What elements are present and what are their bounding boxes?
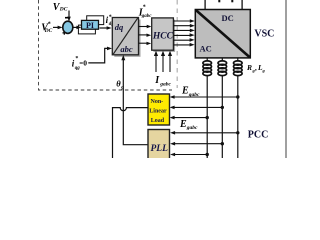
gate pulse wire 4 bbox=[174, 34, 191, 36]
svg-text:DC: DC bbox=[222, 13, 234, 23]
svg-text:*: * bbox=[48, 22, 51, 28]
bus phase c bbox=[237, 75, 239, 158]
wire VSC to coil c bbox=[237, 58, 239, 61]
label V*_DC bbox=[41, 22, 52, 35]
junction dot bus b PLL bbox=[221, 142, 224, 145]
svg-text:abc: abc bbox=[120, 44, 132, 54]
junction dot bus b load bbox=[221, 106, 224, 109]
wire dq/abc to HCC phase c bbox=[139, 42, 148, 44]
svg-text:R: R bbox=[246, 63, 252, 72]
svg-text:DC: DC bbox=[44, 28, 53, 34]
svg-text:Non-: Non- bbox=[151, 99, 164, 105]
junction dot bus a PLL bbox=[206, 153, 209, 156]
svg-text:E: E bbox=[179, 119, 187, 130]
svg-text:DC: DC bbox=[59, 6, 68, 12]
minus sign bbox=[65, 17, 68, 19]
wire VSC to coil a bbox=[206, 58, 208, 61]
svg-text:VSC: VSC bbox=[254, 29, 274, 40]
inductor La coil bbox=[203, 61, 212, 76]
label i*_dg bbox=[106, 15, 115, 28]
wire VSC to coil b bbox=[221, 58, 223, 61]
PLL block bbox=[148, 130, 170, 160]
wire bus a to load phase a bbox=[173, 117, 207, 119]
control region dashed border bbox=[39, 0, 173, 90]
VSC converter block U2 bbox=[195, 10, 250, 58]
gate pulse wire 5 bbox=[174, 39, 191, 41]
svg-text:PCC: PCC bbox=[248, 129, 269, 140]
gate pulse wire 2 bbox=[174, 25, 191, 27]
svg-text:gabc: gabc bbox=[186, 125, 198, 131]
label I*_gabc bbox=[138, 5, 153, 20]
svg-text:dq: dq bbox=[115, 22, 124, 32]
DC link capacitor stub left bbox=[218, 0, 220, 2]
gate pulse wire 3 bbox=[174, 29, 191, 31]
wire bus b to load phase b bbox=[173, 106, 222, 108]
svg-text:g: g bbox=[262, 68, 266, 73]
label V_DC bbox=[53, 2, 68, 13]
wire DC link left bbox=[204, 0, 206, 10]
measurement boundary dashed grey line bbox=[176, 0, 178, 88]
label i*_qg = 0 bbox=[72, 56, 87, 71]
wire bus c to PLL phase c bbox=[174, 132, 238, 134]
svg-text:E: E bbox=[181, 86, 189, 97]
svg-text:0: 0 bbox=[83, 59, 87, 68]
wire Vdc into summer bbox=[68, 11, 70, 18]
svg-text:HCC: HCC bbox=[152, 32, 174, 42]
PCC grid frame line bbox=[285, 0, 287, 158]
wire PI to dq/abc bbox=[100, 27, 108, 29]
junction dot bus c load bbox=[236, 95, 239, 98]
non-linear load block bbox=[148, 94, 170, 125]
PI controller U1 bbox=[78, 16, 103, 34]
label E_gabc upper bbox=[181, 86, 200, 98]
gate pulse wire 1 HCC to VSC bbox=[174, 20, 191, 22]
wire HCC feedback current a bbox=[155, 55, 157, 73]
svg-text:Load: Load bbox=[151, 118, 165, 124]
label E_gabc lower bbox=[179, 119, 198, 131]
dq/abc transform block bbox=[112, 18, 140, 57]
junction dot bus c PLL bbox=[236, 131, 239, 134]
svg-text:*: * bbox=[109, 15, 112, 21]
svg-text:gabc: gabc bbox=[159, 81, 171, 87]
wire HCC feedback current b bbox=[162, 55, 164, 73]
wire dq/abc to HCC phase b bbox=[139, 34, 148, 36]
label Rg,Lg bbox=[246, 63, 266, 73]
svg-text:PI: PI bbox=[86, 21, 94, 30]
wire dq/abc to HCC phase a bbox=[139, 26, 148, 28]
svg-text:Linear: Linear bbox=[149, 109, 167, 115]
wire V*dc into summer bbox=[53, 26, 59, 28]
wire HCC feedback current c bbox=[169, 55, 171, 73]
svg-text:gabc: gabc bbox=[141, 14, 153, 19]
HCC hysteresis current controller block bbox=[152, 18, 175, 52]
gate pulse wire 6 bbox=[174, 44, 191, 46]
svg-text:AC: AC bbox=[200, 44, 212, 54]
svg-text:PLL: PLL bbox=[151, 144, 169, 154]
wire i*_qg=0 to dq/abc bbox=[88, 48, 107, 63]
bus phase b bbox=[221, 75, 223, 158]
plus sign bbox=[63, 31, 67, 35]
node theta_g label bbox=[116, 78, 124, 90]
wire DC link right bbox=[241, 0, 243, 10]
inductor Lb coil bbox=[218, 61, 227, 76]
svg-text:,: , bbox=[255, 64, 257, 72]
wire bus c to load phase c bbox=[173, 96, 238, 98]
label I_gabc bbox=[154, 75, 171, 87]
bus phase a bbox=[206, 75, 208, 158]
junction dot bus a load bbox=[206, 116, 209, 119]
wire summer to PI bbox=[73, 26, 78, 28]
wire bus a to PLL phase a bbox=[174, 154, 208, 156]
inductor Lc coil bbox=[234, 61, 243, 76]
svg-text:*: * bbox=[75, 56, 78, 62]
wire bus b to PLL phase b bbox=[174, 143, 223, 145]
wire theta_g from PLL to dq/abc bbox=[123, 59, 148, 145]
wire to non-linear load from lower feeder with hop bbox=[113, 108, 149, 158]
summing junction bbox=[63, 21, 73, 33]
DC link capacitor stub right bbox=[231, 0, 233, 2]
svg-text:*: * bbox=[143, 5, 146, 11]
